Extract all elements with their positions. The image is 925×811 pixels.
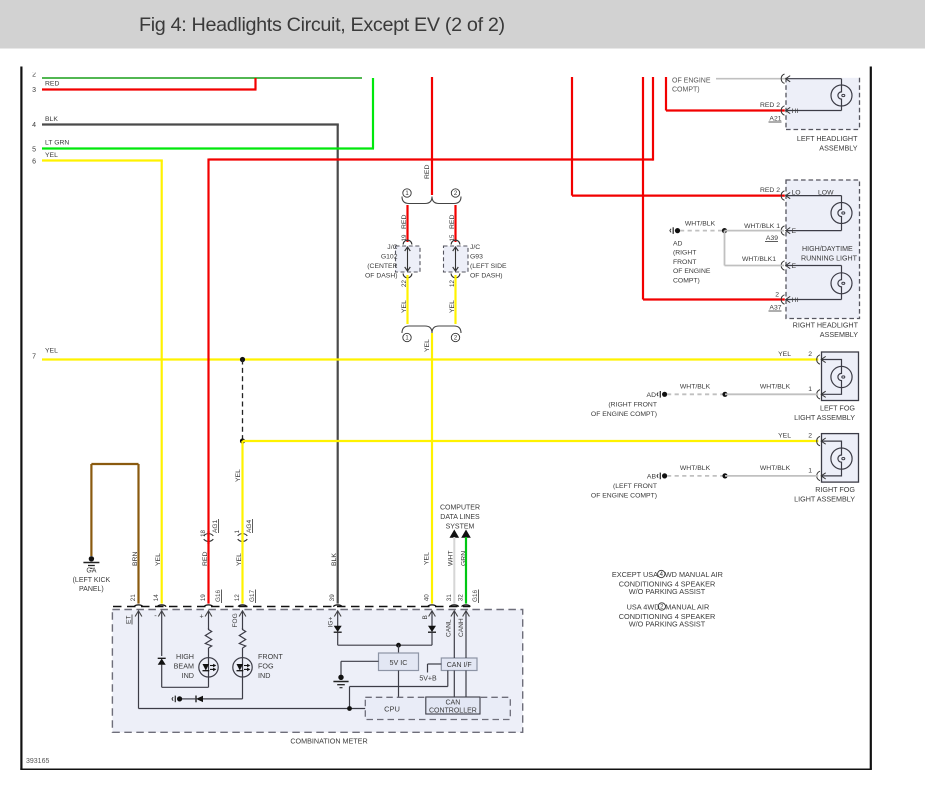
wire RED J/C G93 branch — [454, 205, 456, 242]
svg-text:B: B — [422, 615, 429, 620]
svg-text:COMBINATION METER: COMBINATION METER — [290, 737, 367, 746]
wire LED1 bottom — [208, 677, 210, 687]
wire YEL vertical J/C to pin 40 — [431, 333, 433, 604]
bulb high daytime running light lower — [831, 273, 852, 294]
connector AD splice fog — [657, 393, 658, 397]
svg-text:2: 2 — [775, 292, 779, 299]
wire right fog internal — [822, 441, 842, 476]
wire YEL vertical to pin 12 — [241, 441, 243, 604]
wire WHT/BLK dashed fog right — [667, 475, 725, 477]
svg-text:(LEFT KICK: (LEFT KICK — [73, 577, 111, 584]
wire WHT/BLK right solid — [725, 475, 818, 477]
connector entry right fog pin2 — [817, 436, 820, 445]
wire RED long horizontal — [209, 158, 654, 160]
junction dot row7 — [240, 357, 245, 362]
bulb left headlight — [831, 85, 852, 106]
wire pin14 branch — [161, 611, 163, 656]
connector AB splice fog — [657, 474, 658, 478]
diode D1 high beam — [158, 659, 166, 665]
wire diode D4 down — [431, 632, 433, 645]
svg-text:12: 12 — [234, 594, 241, 602]
svg-text:HI: HI — [792, 108, 799, 115]
wire pin14 branch lower — [161, 665, 163, 688]
svg-text:YEL: YEL — [155, 553, 162, 566]
wire YEL row 6 horizontal — [42, 159, 163, 161]
connector entry fog pin2 — [817, 355, 820, 364]
svg-text:AG4: AG4 — [246, 519, 253, 533]
svg-text:YEL: YEL — [424, 552, 431, 565]
svg-text:19: 19 — [200, 594, 207, 602]
svg-text:CONTROLLER: CONTROLLER — [429, 707, 477, 714]
svg-text:3: 3 — [32, 87, 36, 94]
svg-text:RED: RED — [449, 215, 456, 229]
svg-text:DATA LINES: DATA LINES — [440, 514, 480, 521]
svg-text:RED: RED — [45, 81, 59, 88]
svg-text:WHT/BLK1: WHT/BLK1 — [742, 256, 776, 263]
svg-text:14: 14 — [153, 594, 160, 602]
left fog light box — [822, 352, 859, 401]
svg-text:AD: AD — [647, 392, 657, 399]
connector entry fog pin1 — [817, 390, 820, 399]
svg-text:W/O PARKING ASSIST: W/O PARKING ASSIST — [629, 619, 706, 628]
diagram frame left border — [20, 67, 22, 770]
node 2 circle bottom — [451, 333, 459, 341]
svg-text:HIGH: HIGH — [176, 652, 194, 661]
svg-text:1: 1 — [234, 529, 241, 533]
svg-text:RED 2: RED 2 — [760, 187, 780, 194]
pin 40 combination meter — [428, 605, 437, 607]
svg-text:CANH: CANH — [458, 618, 465, 637]
svg-text:COMPT): COMPT) — [673, 278, 700, 285]
svg-text:21: 21 — [130, 594, 137, 602]
wire pin40 to diode — [431, 611, 433, 626]
svg-text:HIGH/DAYTIME: HIGH/DAYTIME — [802, 245, 853, 253]
bulb right fog — [831, 448, 852, 469]
pin 32 combination meter — [462, 605, 471, 607]
wire RED to LO pin — [572, 195, 785, 197]
svg-text:ET: ET — [126, 616, 133, 624]
wire resistor to LED2 — [242, 648, 244, 658]
svg-text:YEL: YEL — [236, 553, 243, 566]
CAN I/F box — [441, 658, 477, 671]
ground meter symbol — [338, 675, 343, 680]
wire RED vertical x643 — [642, 77, 644, 300]
diode D4 B — [428, 626, 436, 632]
wire LT GRN row 5 horizontal — [42, 147, 374, 149]
svg-text:WHT/BLK: WHT/BLK — [760, 465, 791, 472]
svg-text:BLK: BLK — [331, 553, 338, 566]
svg-text:39: 39 — [329, 594, 336, 602]
svg-text:RED: RED — [401, 215, 408, 229]
svg-text:G102: G102 — [381, 254, 398, 261]
svg-text:OF ENGINE COMPT): OF ENGINE COMPT) — [591, 492, 657, 499]
CPU CAN controller dashed box — [365, 697, 510, 719]
svg-text:1: 1 — [808, 386, 812, 393]
combination meter box — [112, 610, 522, 733]
wire pin39 to diode — [337, 611, 339, 626]
meter connector line — [113, 606, 470, 608]
wire RED vertical to J/C brace — [431, 77, 433, 195]
svg-text:5V+B: 5V+B — [419, 676, 437, 683]
svg-text:RED: RED — [424, 165, 431, 179]
wire RED vertical x572 — [571, 77, 573, 196]
svg-text:J/C: J/C — [470, 244, 480, 251]
wire CANH to controller — [465, 671, 467, 698]
wire WHT/BLK fog solid — [725, 393, 818, 395]
svg-text:YEL: YEL — [778, 433, 791, 440]
svg-text:WHT/BLK: WHT/BLK — [760, 384, 791, 391]
svg-text:J/C: J/C — [387, 244, 397, 251]
svg-text:G93: G93 — [470, 254, 483, 261]
svg-text:RED: RED — [202, 552, 209, 566]
svg-text:MANUAL AIR: MANUAL AIR — [665, 603, 709, 612]
svg-text:OF DASH): OF DASH) — [470, 273, 502, 280]
wire HI A37 internal — [786, 299, 842, 301]
brace bottom — [402, 326, 461, 333]
left headlight box — [786, 78, 860, 130]
wire diode bus — [338, 644, 432, 646]
wire left fog internal — [822, 360, 842, 395]
bulb high daytime running light upper — [831, 203, 852, 224]
wire RED J/C G102 branch — [406, 205, 408, 242]
svg-text:WD MANUAL AIR: WD MANUAL AIR — [665, 570, 723, 579]
svg-text:(CENTER: (CENTER — [367, 263, 397, 270]
svg-text:WHT/BLK: WHT/BLK — [680, 465, 711, 472]
wire pin19 to resistor — [208, 611, 210, 629]
wire YEL to right fog light — [243, 440, 819, 442]
svg-text:A37: A37 — [769, 305, 781, 312]
arrow GRN to computer data lines — [461, 530, 471, 538]
LED high beam indicator — [199, 658, 218, 677]
wire grey engine compt — [716, 78, 786, 80]
svg-text:WHT/BLK: WHT/BLK — [680, 384, 711, 391]
svg-text:IND: IND — [182, 671, 194, 680]
svg-text:LEFT HEADLIGHT: LEFT HEADLIGHT — [797, 134, 858, 143]
wire 5V IC to CPU — [398, 671, 400, 698]
wire YEL J/C G93 branch — [454, 275, 456, 324]
svg-text:(RIGHT FRONT: (RIGHT FRONT — [608, 402, 657, 409]
title banner — [0, 0, 925, 49]
wire BLK row 4 vertical to pin 39 — [337, 125, 339, 604]
svg-text:LEFT FOG: LEFT FOG — [820, 404, 855, 413]
svg-text:RIGHT FOG: RIGHT FOG — [815, 485, 855, 494]
svg-text:USA 4WD: USA 4WD — [627, 603, 660, 612]
connector AD splice — [670, 229, 671, 233]
wire E lower internal — [786, 265, 842, 267]
svg-text:AG1: AG1 — [212, 519, 219, 533]
wire E A39 internal — [786, 230, 842, 232]
svg-text:RUNNING LIGHT: RUNNING LIGHT — [801, 255, 858, 263]
pin 19 combination meter — [204, 605, 213, 607]
wire YEL row 6 vertical to pin 14 — [161, 161, 163, 604]
wire LT GRN row 5 vertical — [372, 78, 374, 149]
diode D3 IG+ — [334, 626, 342, 632]
svg-text:FOG: FOG — [232, 613, 239, 627]
svg-text:FRONT: FRONT — [258, 652, 283, 661]
connector entry E A39 — [781, 226, 784, 235]
junction dot AD — [722, 228, 727, 233]
wire WHT to pin 31 — [453, 537, 455, 604]
svg-text:5V IC: 5V IC — [390, 658, 408, 667]
wire CANL to controller — [453, 671, 455, 698]
5V IC box — [379, 653, 419, 671]
junction dot 5V bus — [396, 643, 401, 648]
svg-text:(LEFT SIDE: (LEFT SIDE — [470, 263, 507, 270]
connector entry E lower — [781, 261, 784, 270]
wire GRN row 2 — [42, 77, 362, 79]
connector tick dot meter — [172, 697, 173, 701]
wire pin12 to resistor — [242, 611, 244, 629]
right headlight box — [786, 180, 860, 319]
svg-text:CAN: CAN — [446, 699, 461, 706]
svg-text:IND: IND — [258, 671, 270, 680]
svg-text:WHT/BLK: WHT/BLK — [685, 221, 716, 228]
wire diode D3 down — [337, 632, 339, 645]
svg-text:IG+: IG+ — [328, 617, 335, 628]
svg-text:CAN I/F: CAN I/F — [447, 662, 472, 669]
pin 39 combination meter — [333, 605, 342, 607]
wire WHT/BLK down branch — [724, 231, 726, 266]
svg-text:YEL: YEL — [449, 300, 456, 313]
resistor R1 — [205, 628, 211, 648]
svg-text:BEAM: BEAM — [174, 662, 194, 671]
wire 5V IC to ground — [341, 660, 379, 662]
wire RED to HI A21 pin — [666, 109, 785, 111]
wire BRN from GA — [90, 464, 92, 556]
svg-text:SYSTEM: SYSTEM — [446, 524, 475, 531]
connector entry right fog pin1 — [817, 471, 820, 480]
svg-text:5: 5 — [32, 147, 36, 154]
junction connector J/C G102 box — [403, 240, 412, 244]
node 1 circle bottom — [403, 333, 411, 341]
wire HI A21 internal — [786, 110, 842, 112]
svg-text:EXCEPT USA: EXCEPT USA — [612, 570, 658, 579]
svg-text:ASSEMBLY: ASSEMBLY — [819, 144, 857, 153]
wire resistor to LED1 — [208, 648, 210, 658]
svg-text:2: 2 — [808, 433, 812, 440]
svg-text:A39: A39 — [766, 235, 778, 242]
svg-text:AB: AB — [647, 474, 657, 481]
svg-text:LIGHT ASSEMBLY: LIGHT ASSEMBLY — [794, 495, 855, 504]
pin 31 combination meter — [450, 605, 459, 607]
svg-text:YEL: YEL — [401, 300, 408, 313]
svg-text:31: 31 — [446, 594, 453, 602]
CAN controller box — [426, 697, 480, 714]
inline connector AG1 — [204, 534, 214, 536]
svg-text:32: 32 — [458, 594, 465, 602]
svg-text:(LEFT FRONT: (LEFT FRONT — [613, 483, 657, 490]
svg-text:OF ENGINE: OF ENGINE — [673, 268, 711, 275]
resistor R2 — [239, 628, 245, 648]
wire pin21 to cpu node — [138, 611, 140, 709]
svg-text:40: 40 — [424, 594, 431, 602]
wire 5V+B stub — [428, 663, 442, 665]
svg-text:OF ENGINE: OF ENGINE — [672, 77, 711, 84]
svg-text:G16: G16 — [472, 589, 479, 602]
wire GRN to pin 32 — [465, 537, 467, 604]
svg-text:YEL: YEL — [235, 469, 242, 482]
wire YEL J/C G102 branch — [406, 275, 408, 324]
node 2 circle top — [451, 189, 459, 197]
arrow WHT to computer data lines — [450, 530, 460, 538]
wire WHT/BLK dashed AD — [680, 230, 725, 232]
wire engine compt internal — [786, 78, 842, 80]
wire pin32 down — [465, 611, 467, 658]
svg-text:(RIGHT: (RIGHT — [673, 250, 696, 257]
right fog light box — [822, 434, 859, 483]
junction dot cpu node — [347, 706, 352, 711]
LED front fog indicator — [233, 658, 252, 677]
brace top — [402, 197, 461, 204]
svg-text:18: 18 — [200, 529, 207, 536]
junction connector J/C G93 box — [451, 240, 460, 244]
svg-text:2: 2 — [808, 351, 812, 358]
bulb left fog — [831, 366, 852, 387]
svg-text:OF DASH): OF DASH) — [365, 273, 397, 280]
wire LED2 bottom — [242, 677, 244, 699]
svg-text:6: 6 — [32, 159, 36, 166]
svg-text:E: E — [792, 263, 797, 270]
wire RED vertical x666 — [665, 77, 667, 111]
svg-text:YEL: YEL — [45, 348, 58, 355]
wire RED row 3 horizontal — [42, 88, 257, 90]
svg-text:1: 1 — [808, 468, 812, 475]
wire RED vertical x653 — [652, 77, 654, 161]
wire WHT/BLK dashed fog left — [667, 393, 725, 395]
svg-text:393165: 393165 — [26, 758, 49, 765]
wire RED row 3 vertical — [254, 78, 256, 90]
svg-text:COMPT): COMPT) — [672, 87, 700, 94]
dashed link row7 to row 441 — [242, 360, 244, 442]
svg-text:Fig 4: Headlights Circuit, Exc: Fig 4: Headlights Circuit, Except EV (2 … — [139, 14, 505, 36]
diagram frame bottom border — [20, 768, 872, 770]
inline connector AG4 — [238, 534, 248, 536]
junction dot row 441 — [240, 438, 245, 443]
svg-text:G16: G16 — [215, 589, 222, 602]
wire BLK row 4 horizontal — [42, 123, 339, 125]
wire YEL row 7 to left fog light — [42, 358, 818, 360]
connector entry engine compt — [781, 74, 784, 83]
pin 14 combination meter — [157, 605, 166, 607]
wire WHT/BLK to A39 — [725, 230, 785, 232]
svg-text:HI: HI — [792, 297, 799, 304]
svg-text:CPU: CPU — [384, 705, 400, 714]
wire RED vertical to pin 19 — [207, 159, 209, 604]
svg-text:AD: AD — [673, 240, 683, 247]
svg-text:WHT/BLK 1: WHT/BLK 1 — [744, 223, 780, 230]
svg-text:COMPUTER: COMPUTER — [440, 505, 480, 512]
svg-text:7: 7 — [32, 354, 36, 361]
diagram frame right border — [870, 67, 872, 770]
svg-text:YEL: YEL — [778, 351, 791, 358]
svg-text:FOG: FOG — [258, 662, 274, 671]
svg-text:RED 2: RED 2 — [760, 102, 780, 109]
svg-text:E: E — [792, 228, 797, 235]
pin 21 combination meter — [134, 605, 143, 607]
svg-text:CANL: CANL — [446, 619, 453, 637]
svg-text:+: + — [199, 614, 203, 621]
svg-text:G17: G17 — [249, 589, 256, 602]
wire bus to 5V IC — [398, 645, 400, 653]
junction dot fog right — [722, 473, 727, 478]
svg-text:RIGHT HEADLIGHT: RIGHT HEADLIGHT — [793, 321, 859, 330]
pin 12 combination meter — [238, 605, 247, 607]
svg-text:A21: A21 — [769, 116, 781, 123]
wire CAN I/F to cpu node — [447, 671, 449, 687]
connector entry HI A37 — [781, 295, 784, 304]
svg-text:YEL: YEL — [424, 339, 431, 352]
connector entry LO — [781, 191, 784, 200]
wire LO internal — [786, 195, 842, 197]
svg-text:PANEL): PANEL) — [79, 586, 104, 593]
svg-text:YEL: YEL — [45, 152, 58, 159]
ground GA symbol — [89, 556, 94, 561]
svg-text:GA: GA — [86, 568, 96, 575]
svg-text:FRONT: FRONT — [673, 259, 696, 266]
svg-text:LT GRN: LT GRN — [45, 140, 69, 147]
top crop band — [24, 49, 866, 73]
connector entry HI A21 — [781, 106, 784, 115]
svg-text:BLK: BLK — [45, 116, 58, 123]
junction dot fog left — [722, 392, 727, 397]
svg-text:OF ENGINE COMPT): OF ENGINE COMPT) — [591, 411, 657, 418]
diode D2 fog return — [196, 696, 203, 702]
svg-text:LIGHT ASSEMBLY: LIGHT ASSEMBLY — [794, 413, 855, 422]
svg-text:W/O PARKING ASSIST: W/O PARKING ASSIST — [629, 587, 706, 596]
node 1 circle top — [403, 189, 411, 197]
svg-text:4: 4 — [32, 122, 36, 129]
svg-text:ASSEMBLY: ASSEMBLY — [820, 330, 858, 339]
wire RED to HI A37 pin — [643, 298, 785, 300]
wire pin31 down — [453, 611, 455, 658]
wire diode to tick dot — [182, 698, 196, 700]
